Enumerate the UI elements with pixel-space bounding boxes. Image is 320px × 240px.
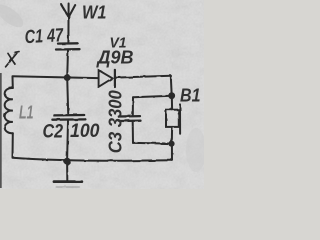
- capacitor C3 plates: [119, 115, 140, 118]
- svg-text:L1: L1: [19, 103, 34, 123]
- inductor L1: [5, 88, 13, 133]
- wire combo bottom: [133, 142, 171, 145]
- diode V1 triangle: [99, 70, 113, 87]
- node B junction dot: [168, 92, 175, 99]
- svg-text:В1: В1: [180, 85, 201, 106]
- wire C2 to bottom rail: [66, 121, 69, 161]
- wire C3 branch upper: [132, 97, 134, 115]
- wire B1 to node C: [171, 127, 173, 144]
- wire node A horizontal: [13, 76, 99, 78]
- ground stem: [66, 161, 68, 180]
- svg-text:W1: W1: [82, 3, 107, 23]
- svg-text:100: 100: [70, 120, 100, 142]
- antenna W1 mast: [67, 4, 69, 44]
- earphone B1 body: [166, 110, 179, 127]
- wire node A to C2: [67, 78, 68, 114]
- svg-text:С3 3300: С3 3300: [106, 90, 126, 153]
- wire diode to right corner: [116, 76, 171, 78]
- ground node junction dot: [64, 158, 71, 165]
- paper background: [0, 0, 204, 189]
- wire C3 branch lower: [132, 122, 134, 143]
- node A junction dot: [64, 74, 71, 81]
- wire right corner down to node B: [170, 76, 173, 96]
- svg-text:C1 47: C1 47: [24, 25, 65, 48]
- wire C1 to node A: [66, 50, 69, 77]
- wire node B to B1: [171, 96, 173, 110]
- scan border left edge: [0, 73, 2, 188]
- capacitor C2 plates: [54, 114, 84, 117]
- wire node C down to bottom rail: [171, 144, 173, 161]
- terminal X symbol: [6, 52, 19, 67]
- wire left rail bottom: [12, 133, 14, 157]
- capacitor C1 plates: [58, 42, 78, 45]
- wire bottom rail: [13, 158, 173, 161]
- ground bar: [54, 180, 82, 183]
- ground bar 2 faint: [57, 186, 80, 188]
- svg-text:C2: C2: [43, 121, 64, 143]
- antenna right arm: [69, 5, 75, 17]
- svg-text:Д9В: Д9В: [96, 46, 134, 67]
- wire left rail top: [12, 77, 14, 89]
- earphone B1 membrane bar: [179, 104, 181, 133]
- antenna left arm: [61, 4, 68, 17]
- wire node B to C3 branch: [133, 96, 172, 97]
- node C junction dot: [168, 141, 174, 147]
- diode V1 cathode bar: [114, 70, 116, 87]
